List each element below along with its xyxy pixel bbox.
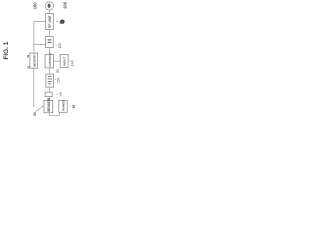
svg-text:150: 150 xyxy=(56,77,60,83)
svg-text:140: 140 xyxy=(71,60,75,66)
block 150 (driver) xyxy=(46,74,54,87)
label 140 leader dash xyxy=(69,60,70,62)
wire: circle to block 110 xyxy=(49,10,51,14)
svg-text:60: 60 xyxy=(56,69,60,73)
label 110 leader dash xyxy=(56,21,58,23)
label 110 numeral xyxy=(60,20,65,24)
block 170 (sensor) xyxy=(44,100,53,112)
svg-text:100: 100 xyxy=(32,2,37,10)
wire: block 110 left to bus xyxy=(34,22,46,54)
circle node 10 (circled terminal at top) xyxy=(45,2,53,10)
block 140 (input) xyxy=(60,54,68,67)
wire: bus below memory xyxy=(33,68,35,107)
label 180 leader dash xyxy=(69,105,70,107)
pin label P inside circle xyxy=(48,4,51,8)
wire: bus branch to block 120 xyxy=(34,44,46,46)
wire: block 130 to block 150 xyxy=(48,68,50,74)
svg-text:160: 160 xyxy=(59,91,63,96)
wire: block 110 to block 120 xyxy=(49,30,51,37)
svg-text:200: 200 xyxy=(62,1,67,9)
svg-text:120: 120 xyxy=(58,43,62,49)
label 120 leader dash xyxy=(55,44,57,46)
wire: block 120 to block 130 xyxy=(49,48,51,55)
leader line for label 20 xyxy=(36,106,44,112)
label 160 leader dash xyxy=(57,93,58,95)
label 150 leader dash xyxy=(55,79,56,81)
svg-text:POWER: POWER xyxy=(61,99,65,111)
svg-text:INPUT: INPUT xyxy=(63,57,67,66)
svg-text:20: 20 xyxy=(33,112,37,116)
wire: block 160 to block 170 xyxy=(48,97,50,101)
wire: block 130 to block 140 xyxy=(54,60,61,62)
block 130 (control) xyxy=(45,55,53,68)
svg-text:CONTROL: CONTROL xyxy=(48,52,52,67)
block 110 (RF unit) xyxy=(46,14,54,30)
block 160 (small connector box) xyxy=(45,92,52,96)
block 120 (A/D) xyxy=(46,37,54,48)
svg-text:30: 30 xyxy=(26,54,30,58)
svg-text:SENSOR: SENSOR xyxy=(47,97,51,112)
svg-text:90: 90 xyxy=(72,105,76,109)
svg-text:32: 32 xyxy=(26,65,30,69)
block 30 (memory, on bus) xyxy=(30,53,38,68)
svg-text:RF UNIT: RF UNIT xyxy=(48,15,52,28)
svg-text:MEMORY: MEMORY xyxy=(32,54,36,67)
wire: block 150 to block 160 xyxy=(48,87,50,92)
svg-text:FIG. 1: FIG. 1 xyxy=(3,41,10,59)
block 180 (power) xyxy=(59,100,67,112)
wire: block 170 bottom to block 180 bottom xyxy=(49,112,59,115)
